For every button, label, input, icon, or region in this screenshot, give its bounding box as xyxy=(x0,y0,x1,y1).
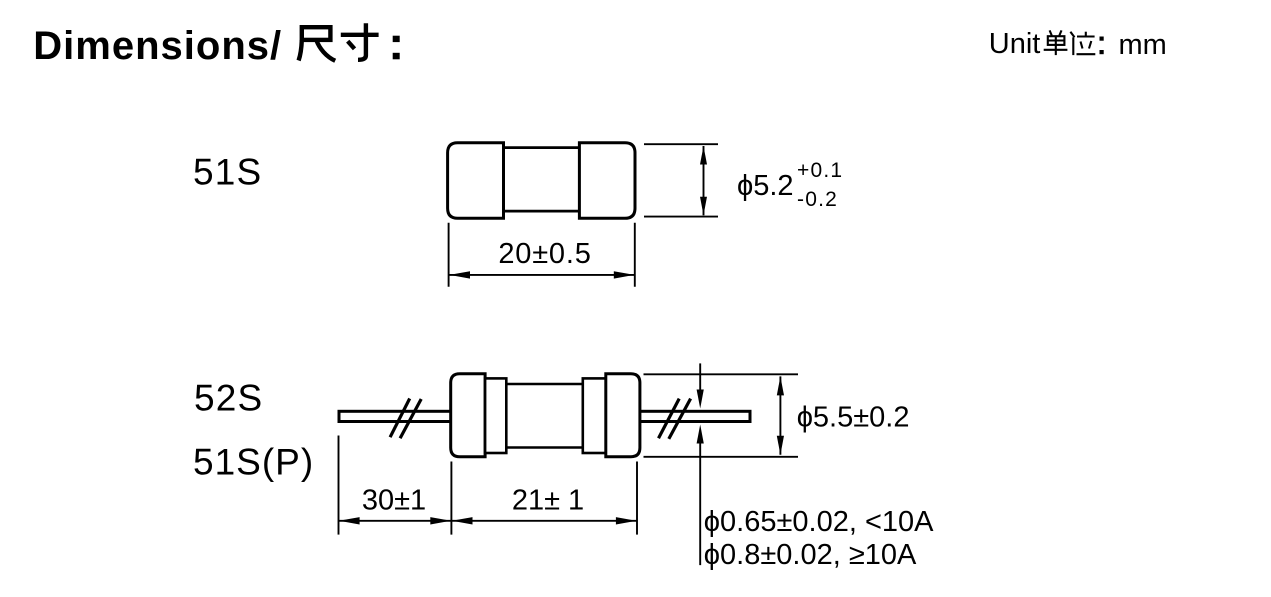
svg-text:51S: 51S xyxy=(193,152,262,193)
fuse 52S big left cap xyxy=(451,374,485,457)
fuse 52S middle body xyxy=(506,384,583,448)
svg-text:-0.2: -0.2 xyxy=(797,188,838,211)
svg-text:51S(P): 51S(P) xyxy=(193,442,314,483)
svg-text:Unit: Unit xyxy=(989,28,1041,60)
unit colon xyxy=(1100,37,1104,55)
right lead break mark xyxy=(659,399,691,439)
svg-text:mm: mm xyxy=(1119,29,1167,61)
svg-text:30±1: 30±1 xyxy=(362,485,426,517)
dimension phi5.2 extension lines xyxy=(644,144,718,216)
dimension 30±1 / 21±1 extension lines xyxy=(339,436,638,535)
dimension phi5.5 extension lines xyxy=(644,374,799,457)
fuse 51S middle body xyxy=(504,148,580,212)
dimension phi5.5 arrow line xyxy=(779,376,781,454)
lead diameter dimension line upper xyxy=(699,363,701,391)
fuse 52S big right cap xyxy=(606,374,640,457)
dimension 21±1 arrows xyxy=(452,517,473,524)
svg-text:+0.1: +0.1 xyxy=(797,159,843,182)
dimension 30±1 line xyxy=(339,520,638,522)
dimension 20±0.5 line xyxy=(449,274,635,276)
title CJK 寸 xyxy=(341,23,379,60)
fuse 52S right ring xyxy=(583,378,606,453)
svg-text:ϕ0.65±0.02, <10A: ϕ0.65±0.02, <10A xyxy=(704,506,934,538)
dimension 30±1 arrows xyxy=(339,517,360,524)
svg-text:21± 1: 21± 1 xyxy=(512,485,584,517)
fuse 51S left cap xyxy=(448,143,504,219)
svg-text:ϕ5.5±0.2: ϕ5.5±0.2 xyxy=(797,402,910,434)
svg-text:52S: 52S xyxy=(194,377,263,418)
svg-text:ϕ5.2: ϕ5.2 xyxy=(737,170,794,202)
svg-text:20±0.5: 20±0.5 xyxy=(498,238,591,270)
title CJK 尺 xyxy=(299,27,336,61)
lead diameter dimension line lower xyxy=(699,443,701,565)
unit CJK 单 xyxy=(1044,30,1068,55)
fuse 51S right cap xyxy=(579,143,635,219)
svg-text:ϕ0.8±0.02, ≥10A: ϕ0.8±0.02, ≥10A xyxy=(704,539,917,571)
svg-text:Dimensions/: Dimensions/ xyxy=(33,24,282,68)
left lead break mark xyxy=(390,399,421,439)
left lead wire xyxy=(339,411,455,421)
unit CJK 位 xyxy=(1070,32,1095,55)
dimension 20±0.5 extension lines xyxy=(449,223,635,287)
dimension phi5.2 arrow line xyxy=(703,146,705,215)
fuse 52S left ring xyxy=(485,378,506,453)
right lead wire xyxy=(637,411,750,421)
dimension 20±0.5 arrows xyxy=(449,271,470,278)
title colon xyxy=(393,36,400,60)
